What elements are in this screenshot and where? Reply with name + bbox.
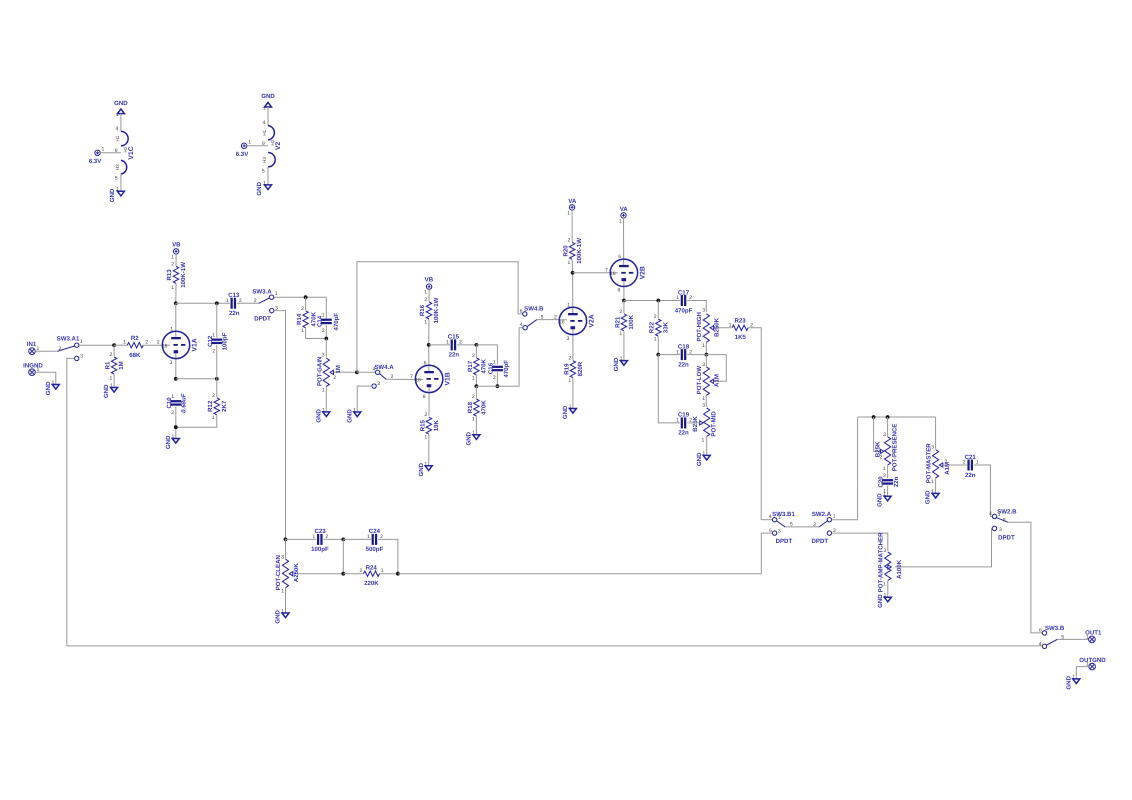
- potentiometer POT-MASTER: [925, 417, 966, 493]
- wire SW4.B to V2A grid: [537, 319, 560, 321]
- svg-text:1: 1: [424, 435, 427, 441]
- svg-text:4: 4: [769, 514, 772, 520]
- junction R24 left: [341, 572, 345, 576]
- triode V2B: [605, 218, 646, 301]
- svg-text:4: 4: [520, 322, 523, 328]
- wire 6.3V to V1C H2: [100, 152, 121, 154]
- svg-text:A100K: A100K: [896, 559, 903, 579]
- connector IN1: [27, 341, 40, 354]
- svg-text:1: 1: [367, 534, 370, 540]
- svg-text:470pF: 470pF: [503, 360, 510, 378]
- svg-text:2: 2: [360, 568, 363, 574]
- junction C23 node: [284, 538, 288, 542]
- wire SW3.A1 pin1 to node A: [79, 344, 114, 346]
- svg-text:2: 2: [654, 314, 657, 320]
- svg-text:DPDT: DPDT: [998, 535, 1015, 542]
- wire R17/C16 bottom to SW4.B pin4: [476, 328, 523, 387]
- svg-text:5: 5: [115, 176, 118, 182]
- svg-text:10K: 10K: [433, 420, 440, 432]
- svg-text:1: 1: [702, 396, 705, 402]
- svg-text:R13: R13: [166, 269, 173, 281]
- svg-text:3: 3: [170, 360, 173, 366]
- svg-text:SW3.A1: SW3.A1: [57, 335, 80, 342]
- power VA (V2B): [619, 206, 629, 225]
- svg-text:B250K: B250K: [714, 317, 721, 337]
- svg-text:2: 2: [212, 348, 215, 354]
- svg-text:GND: GND: [696, 452, 703, 466]
- svg-text:7: 7: [410, 374, 413, 380]
- power VA (R20): [567, 198, 577, 217]
- svg-text:VB: VB: [172, 242, 181, 249]
- wire cathode node to C17: [624, 300, 680, 302]
- svg-text:2: 2: [145, 340, 148, 346]
- svg-text:A250K: A250K: [293, 563, 300, 583]
- svg-text:2: 2: [333, 375, 336, 381]
- svg-text:V2B: V2B: [639, 266, 646, 279]
- svg-text:2: 2: [963, 460, 966, 466]
- svg-text:1M: 1M: [118, 361, 125, 369]
- svg-text:22n: 22n: [449, 352, 460, 359]
- svg-text:22n: 22n: [678, 361, 689, 368]
- svg-text:4: 4: [989, 511, 992, 517]
- junction node A: [112, 343, 116, 347]
- svg-text:GND: GND: [1065, 675, 1072, 689]
- svg-text:2K7: 2K7: [221, 400, 228, 412]
- wire OUTGND to ground: [1076, 667, 1089, 679]
- junction C16 bottom: [496, 384, 500, 388]
- wire SW4.A to V1B grid: [386, 378, 416, 380]
- svg-text:VB: VB: [425, 277, 434, 284]
- capacitor C15: [429, 334, 477, 359]
- connector INGND: [23, 362, 43, 375]
- svg-text:4: 4: [373, 367, 376, 373]
- svg-text:1: 1: [248, 140, 251, 146]
- svg-text:C14: C14: [317, 315, 324, 327]
- connector OUTGND: [1079, 657, 1106, 670]
- svg-text:C15: C15: [448, 334, 460, 341]
- svg-text:3: 3: [567, 336, 570, 342]
- svg-text:1: 1: [275, 291, 278, 297]
- svg-text:6.3V: 6.3V: [89, 158, 102, 165]
- svg-text:GND: GND: [103, 384, 110, 398]
- resistor R20: [562, 210, 583, 273]
- svg-text:2: 2: [171, 261, 174, 267]
- wire SW3.A pin1 to R14/C14: [274, 297, 326, 318]
- potentiometer POT-MID: [692, 403, 717, 456]
- svg-text:4: 4: [116, 126, 119, 132]
- svg-text:1: 1: [676, 349, 679, 355]
- junction wiper POT-PRESENCE bus: [872, 415, 876, 419]
- capacitor C20: [877, 473, 900, 496]
- svg-text:VA: VA: [620, 206, 629, 213]
- wire R24 node to SW3.B1 pin6: [398, 573, 761, 575]
- svg-text:2: 2: [301, 306, 304, 312]
- capacitor C19: [658, 355, 699, 437]
- switch SW4.A: [357, 364, 394, 412]
- svg-text:1: 1: [568, 260, 571, 266]
- resistor R17: [467, 345, 488, 386]
- svg-text:3: 3: [999, 527, 1002, 533]
- svg-text:GND: GND: [877, 493, 884, 507]
- wire bottom bus: [67, 645, 1042, 647]
- svg-text:GND: GND: [418, 462, 425, 476]
- svg-text:100pF: 100pF: [311, 546, 329, 553]
- svg-text:SW3.B: SW3.B: [1045, 625, 1065, 632]
- svg-text:2: 2: [619, 309, 622, 315]
- svg-text:R14: R14: [296, 313, 303, 325]
- svg-text:1: 1: [998, 512, 1001, 518]
- svg-text:R2: R2: [131, 335, 139, 342]
- junction cathode V1A: [174, 377, 178, 381]
- svg-text:4: 4: [263, 120, 266, 126]
- wire SW3.B1/SW2.A common: [785, 526, 819, 528]
- svg-text:2: 2: [813, 522, 816, 528]
- svg-text:DPDT: DPDT: [812, 538, 829, 545]
- wire V2A anode to V2B grid: [573, 272, 611, 274]
- svg-text:C17: C17: [678, 289, 690, 296]
- resistor R15: [419, 412, 440, 466]
- svg-text:B25K: B25K: [692, 416, 699, 432]
- svg-text:C16: C16: [488, 362, 495, 374]
- svg-text:R24: R24: [366, 565, 378, 572]
- resistor R24: [343, 565, 398, 588]
- switch SW3.A1: [57, 335, 84, 360]
- svg-text:GND: GND: [114, 100, 128, 107]
- svg-text:1: 1: [676, 295, 679, 301]
- ground (SW4.A): [346, 408, 360, 423]
- svg-text:1: 1: [226, 298, 229, 304]
- svg-text:POT-MID: POT-MID: [710, 411, 717, 437]
- junction C14 bottom: [324, 337, 328, 341]
- svg-text:POT-GAIN: POT-GAIN: [316, 357, 323, 386]
- junction R17 top: [475, 343, 479, 347]
- svg-text:INGND: INGND: [23, 362, 43, 369]
- svg-text:DPDT: DPDT: [776, 538, 793, 545]
- svg-text:220K: 220K: [364, 580, 379, 587]
- svg-text:2: 2: [424, 412, 427, 418]
- junction R14 top: [304, 295, 308, 299]
- junction C18 left: [656, 353, 660, 357]
- svg-text:1: 1: [567, 302, 570, 308]
- svg-text:2: 2: [322, 328, 325, 334]
- svg-text:470K: 470K: [480, 400, 487, 415]
- ground (V1A cathode): [165, 434, 180, 449]
- triode V1B: [410, 345, 452, 416]
- resistor R18: [467, 386, 488, 435]
- svg-text:SW3.A: SW3.A: [252, 288, 272, 295]
- resistor R12: [176, 379, 228, 427]
- svg-text:C19: C19: [678, 412, 690, 419]
- svg-text:1: 1: [472, 375, 475, 381]
- capacitor C13: [226, 292, 259, 317]
- svg-text:2: 2: [171, 410, 174, 416]
- junction R22 top: [656, 299, 660, 303]
- capacitor C21: [963, 454, 993, 517]
- svg-text:6: 6: [618, 254, 621, 260]
- svg-text:16: 16: [415, 377, 421, 383]
- svg-text:500pF: 500pF: [366, 546, 384, 553]
- svg-text:1: 1: [102, 147, 105, 153]
- triode V2A: [554, 273, 595, 360]
- svg-text:3: 3: [702, 403, 705, 409]
- svg-text:R19: R19: [563, 363, 570, 375]
- wire SW2.A pin3 to POT-AMP-MATCHER: [832, 533, 888, 551]
- wire SW2.B pin3 to POT-AMP-MATCHER wiper: [895, 528, 992, 567]
- junction anode V1A: [174, 301, 178, 305]
- ground (R21): [613, 356, 627, 371]
- svg-text:1: 1: [446, 340, 449, 346]
- svg-text:1: 1: [567, 211, 570, 217]
- wire SW3.B common to OUT1: [1057, 638, 1088, 640]
- resistor R23: [729, 318, 762, 520]
- svg-text:GND: GND: [45, 381, 52, 395]
- svg-text:R17: R17: [467, 360, 474, 372]
- resistor R2: [114, 335, 163, 359]
- wire SW3.A pin3 down to C23 node: [274, 311, 286, 540]
- ground (R1): [103, 383, 117, 398]
- svg-text:V2: V2: [275, 142, 282, 151]
- svg-text:GND: GND: [275, 610, 282, 624]
- capacitor C12: [207, 303, 228, 379]
- junction R24 right: [396, 572, 400, 576]
- junction V2A anode: [571, 271, 575, 275]
- svg-text:C24: C24: [369, 528, 381, 535]
- svg-text:100K-1W: 100K-1W: [180, 262, 187, 288]
- svg-text:100pF: 100pF: [221, 333, 228, 351]
- svg-text:2: 2: [472, 353, 475, 359]
- svg-text:C12: C12: [207, 335, 214, 347]
- svg-text:POT-CLEAN: POT-CLEAN: [275, 555, 282, 590]
- svg-text:1: 1: [472, 417, 475, 423]
- wire SW2.B common to SW3.B: [1008, 522, 1042, 633]
- junction C18 right: [704, 353, 708, 357]
- power VB (R16): [424, 277, 433, 296]
- capacitor C17: [675, 289, 707, 314]
- power 6.3V (V2): [236, 140, 251, 158]
- connector OUT1: [1085, 630, 1102, 643]
- svg-text:1: 1: [619, 331, 622, 337]
- switch SW2.A: [812, 511, 836, 545]
- svg-text:POT-HIGH: POT-HIGH: [696, 312, 703, 341]
- svg-text:100K-1W: 100K-1W: [433, 297, 440, 323]
- switch SW3.B1: [761, 511, 795, 545]
- svg-text:3: 3: [377, 381, 380, 387]
- svg-text:GND: GND: [925, 490, 932, 504]
- svg-text:2: 2: [493, 375, 496, 381]
- svg-text:68K: 68K: [129, 352, 141, 359]
- svg-text:POT-AMP-MATCHER: POT-AMP-MATCHER: [878, 532, 885, 592]
- svg-text:B25K: B25K: [874, 441, 881, 457]
- svg-text:GND: GND: [877, 594, 884, 608]
- resistor R14: [296, 297, 326, 338]
- svg-text:V1B: V1B: [445, 372, 452, 385]
- svg-text:DPDT: DPDT: [254, 315, 271, 322]
- svg-text:1: 1: [702, 343, 705, 349]
- svg-text:1: 1: [1086, 634, 1089, 640]
- wire C18 node to POT-LOW wiper: [706, 355, 726, 382]
- svg-text:1: 1: [80, 339, 83, 345]
- switch SW3.A: [252, 288, 278, 322]
- wire C23/C24 node down to wiper node: [342, 539, 344, 573]
- wire SW3.B1 pin6 to R24 node: [761, 533, 772, 574]
- resistor R13: [166, 254, 187, 303]
- svg-text:GND: GND: [562, 405, 569, 419]
- svg-text:C20: C20: [877, 476, 884, 488]
- svg-text:2: 2: [157, 340, 160, 346]
- svg-text:1: 1: [729, 322, 732, 328]
- svg-text:H3: H3: [262, 157, 267, 163]
- power VB (R13): [171, 242, 181, 261]
- svg-text:VA: VA: [568, 198, 577, 205]
- svg-text:3: 3: [80, 353, 83, 359]
- ground (C20): [877, 492, 891, 507]
- svg-text:5: 5: [1003, 517, 1006, 523]
- svg-text:2: 2: [554, 315, 557, 321]
- svg-text:1: 1: [263, 106, 266, 112]
- svg-text:2: 2: [568, 237, 571, 243]
- svg-text:R23: R23: [735, 318, 747, 325]
- junction V1B anode: [427, 343, 431, 347]
- capacitor C10: [166, 393, 187, 438]
- svg-text:470pF: 470pF: [675, 307, 693, 314]
- svg-text:GND: GND: [261, 93, 275, 100]
- svg-text:1: 1: [424, 290, 427, 296]
- svg-text:100K: 100K: [628, 314, 635, 329]
- svg-text:3: 3: [883, 432, 886, 438]
- svg-text:6: 6: [1039, 627, 1042, 633]
- svg-text:8: 8: [423, 394, 426, 400]
- svg-text:GND: GND: [346, 409, 353, 423]
- wire R17 node to C16: [476, 345, 497, 364]
- svg-text:33K: 33K: [662, 321, 669, 333]
- svg-text:1: 1: [654, 337, 657, 343]
- junction R12 top: [215, 377, 219, 381]
- triode V1A: [157, 303, 199, 379]
- svg-text:1: 1: [424, 320, 427, 326]
- svg-text:2: 2: [59, 346, 62, 352]
- ground (R18): [466, 430, 480, 445]
- capacitor C23: [286, 528, 344, 553]
- ground (R15): [418, 461, 432, 476]
- svg-text:H3: H3: [115, 164, 120, 170]
- svg-text:2: 2: [254, 298, 257, 304]
- svg-text:C21: C21: [965, 454, 977, 461]
- ground (POT-MID): [696, 451, 710, 466]
- svg-text:A1M: A1M: [944, 462, 951, 475]
- svg-text:1: 1: [116, 112, 119, 118]
- svg-text:7: 7: [605, 267, 608, 273]
- wire 6.3V to V2 H2: [247, 145, 268, 147]
- wire INGND to ground: [35, 372, 56, 384]
- svg-text:2: 2: [472, 394, 475, 400]
- capacitor C18: [658, 343, 706, 368]
- switch SW2.B: [989, 508, 1017, 541]
- svg-text:1: 1: [322, 387, 325, 393]
- svg-text:1: 1: [171, 255, 174, 261]
- svg-text:1: 1: [170, 326, 173, 332]
- resistor R16: [419, 289, 440, 345]
- svg-text:4: 4: [1039, 641, 1042, 647]
- svg-text:6: 6: [520, 308, 523, 314]
- svg-text:POT-MASTER: POT-MASTER: [925, 443, 932, 484]
- svg-text:V1C: V1C: [128, 146, 135, 159]
- junction V2B cathode: [622, 299, 626, 303]
- capacitor C14: [317, 312, 340, 338]
- svg-text:22n: 22n: [229, 310, 240, 317]
- svg-text:1: 1: [171, 285, 174, 291]
- svg-text:100K-1W: 100K-1W: [576, 238, 583, 264]
- wire SW3.A1 pin3 down to bottom bus: [67, 358, 75, 646]
- resistor R1: [105, 345, 125, 387]
- junction POT-PRESENCE top bus: [886, 415, 890, 419]
- svg-text:1: 1: [883, 466, 886, 472]
- svg-text:R12: R12: [207, 400, 214, 412]
- svg-text:1M: 1M: [335, 365, 342, 373]
- ground (POT-AMP-MATCHER): [877, 593, 891, 608]
- svg-text:R20: R20: [562, 245, 569, 257]
- svg-text:22n: 22n: [893, 476, 900, 487]
- potentiometer POT-PRESENCE: [874, 417, 898, 478]
- switch SW4.B: [520, 306, 544, 330]
- switch SW3.B: [1039, 625, 1065, 648]
- svg-text:GND: GND: [109, 188, 116, 202]
- svg-text:POT-LOW: POT-LOW: [696, 366, 703, 395]
- svg-text:R18: R18: [467, 401, 474, 413]
- svg-text:1: 1: [676, 418, 679, 424]
- svg-text:1: 1: [123, 340, 126, 346]
- potentiometer POT-AMP-MATCHER: [878, 532, 904, 597]
- junction C23/C24: [341, 538, 345, 542]
- svg-text:V2A: V2A: [588, 314, 595, 327]
- ground (OUTGND): [1065, 674, 1079, 689]
- capacitor C24: [343, 528, 398, 574]
- svg-text:R22: R22: [649, 321, 656, 333]
- resistor R19: [563, 356, 584, 409]
- ground (POT-GAIN): [315, 407, 330, 422]
- svg-text:820R: 820R: [577, 361, 584, 376]
- svg-text:IN1: IN1: [27, 341, 37, 348]
- wire IN1 to SW3.A1: [35, 350, 57, 352]
- svg-text:GND: GND: [256, 181, 263, 195]
- svg-text:1K5: 1K5: [735, 334, 747, 341]
- wire presence bus: [858, 416, 936, 418]
- svg-text:SW3.B1: SW3.B1: [772, 511, 795, 518]
- svg-text:16: 16: [610, 271, 616, 277]
- svg-text:22n: 22n: [965, 472, 976, 479]
- wire anode node to C12/C13: [176, 302, 230, 304]
- svg-text:R16: R16: [419, 304, 426, 316]
- junction POT-GAIN wiper node: [355, 370, 359, 374]
- wire cathode node to R12: [176, 378, 217, 380]
- power 6.3V (V1C): [89, 147, 105, 165]
- svg-text:V1A: V1A: [192, 338, 199, 351]
- svg-text:16: 16: [162, 343, 168, 349]
- ground (POT-CLEAN): [275, 609, 289, 624]
- svg-text:5: 5: [262, 168, 265, 174]
- svg-text:1: 1: [778, 515, 781, 521]
- svg-text:POT-PRESENCE: POT-PRESENCE: [891, 424, 898, 472]
- svg-text:GND: GND: [315, 409, 322, 423]
- capacitor C16: [488, 360, 510, 387]
- resistor R22: [649, 301, 670, 355]
- potentiometer POT-LOW: [696, 355, 721, 407]
- svg-text:SW4.B: SW4.B: [524, 306, 544, 313]
- svg-text:16: 16: [559, 319, 565, 325]
- svg-text:GND: GND: [165, 435, 172, 449]
- svg-text:6.3V: 6.3V: [236, 151, 249, 158]
- svg-text:2: 2: [212, 393, 215, 399]
- svg-text:C18: C18: [678, 343, 690, 350]
